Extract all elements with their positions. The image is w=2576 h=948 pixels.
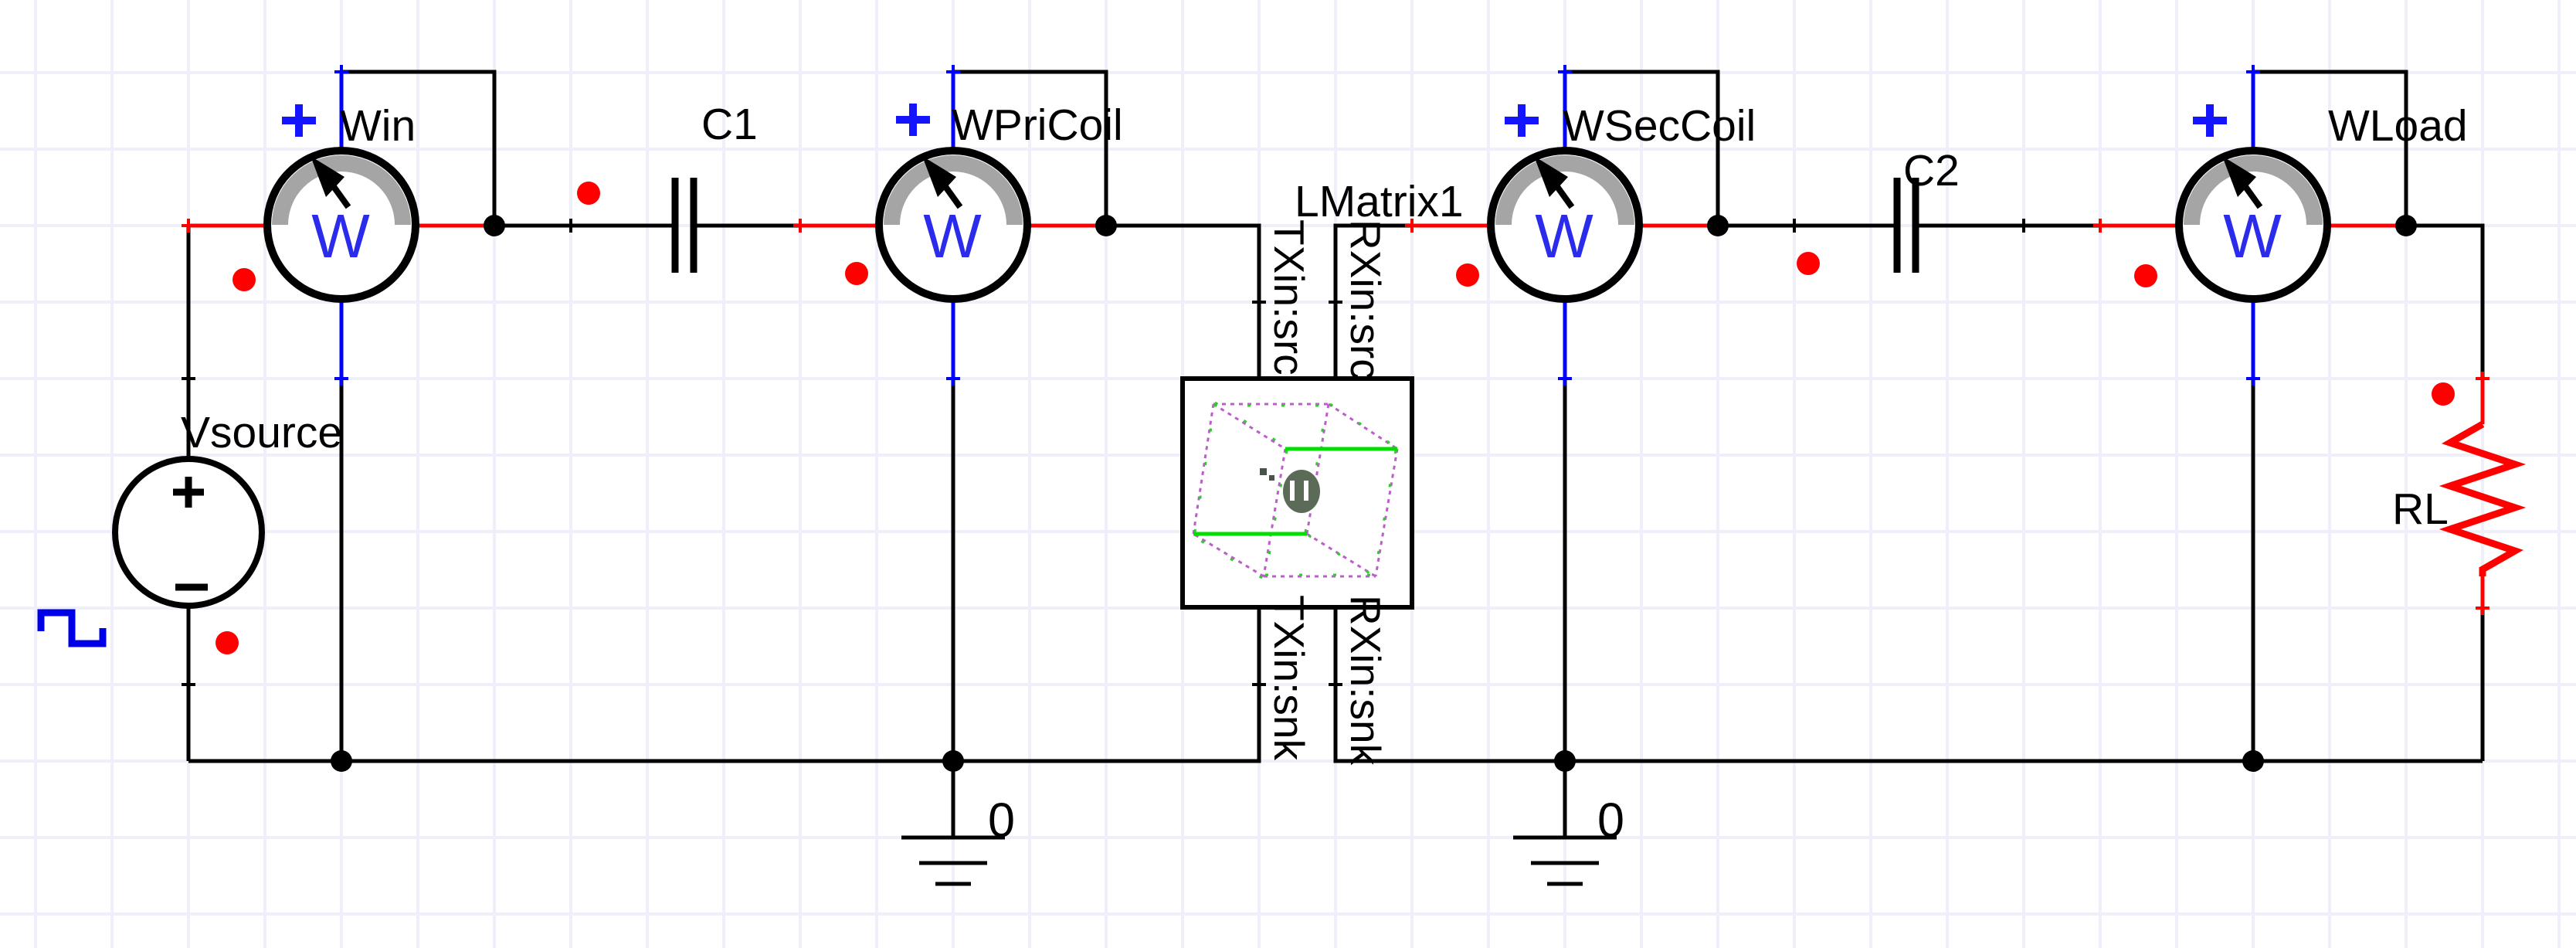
pin end tick marks blue xyxy=(334,65,2260,386)
wire LMatrix RXin:src to WSecCoil xyxy=(1336,226,1412,379)
wire blue WLoad voltage pins xyxy=(2252,72,2255,379)
wattmeter U WSecCoil xyxy=(1491,151,1639,299)
wire WSecCoil junction to C2 xyxy=(1718,224,1897,228)
voltage source Vsource xyxy=(115,459,262,606)
LMatrix1 cube icon xyxy=(1192,403,1399,578)
wire Win bottom to bus xyxy=(340,379,344,761)
wire node junction C1 left xyxy=(494,224,675,228)
LMatrix1 core blob xyxy=(1260,468,1320,513)
red probe dots xyxy=(216,182,2455,654)
wire RL bottom to bus xyxy=(2481,608,2485,761)
wire WPriCoil junction to LMatrix TXin:src xyxy=(1106,226,1259,379)
wire Vsource branch xyxy=(187,226,191,761)
wire blue WPriCoil voltage pins xyxy=(952,72,955,379)
wattmeter plus WSecCoil xyxy=(1505,104,1539,137)
wire ground2 stem xyxy=(1563,761,1567,838)
Vsource step waveform glyph xyxy=(41,613,103,644)
resistor RL xyxy=(2450,379,2515,608)
wattmeter plus Win xyxy=(282,104,316,137)
wattmeter U WPriCoil xyxy=(879,151,1027,299)
ground 0 (left) xyxy=(901,838,1005,884)
svg-text:WLoad: WLoad xyxy=(2328,101,2468,151)
svg-text:RXin:snk: RXin:snk xyxy=(1342,595,1390,766)
wire blue WSecCoil voltage pins xyxy=(1563,72,1567,379)
svg-text:C2: C2 xyxy=(1903,146,1960,195)
wire WPriCoil bottom to bus xyxy=(952,379,955,761)
pin end tick marks red xyxy=(182,219,2489,615)
wattmeter U WLoad xyxy=(2179,151,2327,299)
svg-text:WSecCoil: WSecCoil xyxy=(1563,101,1756,151)
capacitor C2 xyxy=(1897,178,1916,273)
capacitor C1 xyxy=(675,178,694,273)
svg-text:C1: C1 xyxy=(701,100,758,149)
svg-text:Vsource: Vsource xyxy=(181,408,342,457)
wattmeter plus WPriCoil xyxy=(896,104,930,136)
wire WLoad feedback top xyxy=(2253,72,2406,226)
svg-text:0: 0 xyxy=(988,793,1015,848)
svg-text:RL: RL xyxy=(2392,484,2449,534)
wire WSecCoil bottom to bus xyxy=(1563,379,1567,761)
svg-text:Win: Win xyxy=(340,101,416,151)
mutual inductor LMatrix1 block xyxy=(1183,379,1412,607)
ground 0 (right) xyxy=(1513,838,1617,884)
wattmeter plus WLoad xyxy=(2193,104,2227,137)
wire C2 to WLoad pin xyxy=(1916,224,2100,228)
wire Win feedback top xyxy=(341,72,494,226)
wire WSecCoil feedback top xyxy=(1565,72,1718,226)
wire C1 to WPriCoil pin xyxy=(694,224,800,228)
wire blue Win voltage pins xyxy=(340,72,344,379)
wattmeter U Win xyxy=(267,151,416,299)
svg-text:TXin:snk: TXin:snk xyxy=(1265,595,1313,760)
wire ground1 stem xyxy=(952,761,955,838)
svg-text:RXin:src: RXin:src xyxy=(1342,219,1390,380)
wire red WPriCoil current pins xyxy=(800,224,1106,228)
pin end tick marks black xyxy=(182,219,2031,691)
wire bottom bus left net xyxy=(188,608,1259,761)
svg-text:TXin:src: TXin:src xyxy=(1265,219,1313,375)
wire red Win current pins xyxy=(188,224,494,228)
wire WPriCoil feedback top xyxy=(953,72,1106,226)
svg-text:WPriCoil: WPriCoil xyxy=(952,100,1123,150)
wire WLoad bottom to bus xyxy=(2252,379,2255,761)
svg-text:0: 0 xyxy=(1597,793,1624,848)
wire red WSecCoil current pins xyxy=(1412,224,1718,228)
wire bottom bus right net xyxy=(1336,608,2483,761)
junction node dots xyxy=(331,215,2417,772)
wire red WLoad current pins xyxy=(2100,224,2406,228)
wire WLoad junction to RL top xyxy=(2406,226,2483,379)
